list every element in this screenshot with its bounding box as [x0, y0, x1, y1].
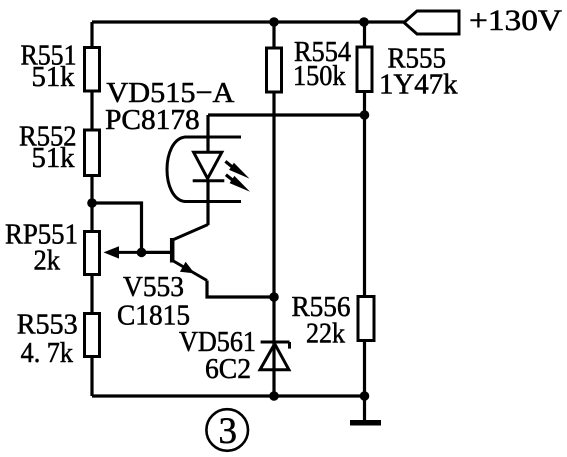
- svg-text:1Y47k: 1Y47k: [379, 69, 458, 101]
- potentiometer RP551 wiper arrow: [116, 251, 142, 254]
- transistor emitter diagonal: [173, 261, 208, 281]
- node dot emitter: [269, 292, 279, 302]
- resistor R556: [358, 297, 374, 341]
- resistor R551: [85, 48, 100, 92]
- svg-text:4. 7k: 4. 7k: [21, 337, 74, 369]
- light arrow 2: [226, 175, 233, 180]
- wire base link: [92, 203, 170, 252]
- node dot wiper: [137, 248, 147, 258]
- LED D (inside optocoupler): [193, 152, 225, 180]
- svg-text:6C2: 6C2: [205, 353, 251, 385]
- svg-text:V553: V553: [123, 271, 184, 303]
- optocoupler U VD515-A housing: [167, 137, 241, 202]
- connector +130V tag: [404, 11, 459, 34]
- node dot top middle: [269, 17, 279, 27]
- svg-text:51k: 51k: [32, 61, 75, 93]
- node dot left column: [87, 198, 97, 208]
- svg-text:51k: 51k: [32, 142, 75, 174]
- wire middle column: [272, 22, 275, 396]
- svg-text:22k: 22k: [306, 318, 345, 350]
- transistor base bar: [170, 238, 175, 263]
- resistor R554: [267, 48, 282, 92]
- svg-text:3: 3: [219, 411, 238, 452]
- svg-text:R553: R553: [17, 309, 78, 341]
- wire ground stub: [363, 396, 366, 420]
- transistor V553: [172, 225, 208, 281]
- wire opto top link: [208, 113, 365, 116]
- wire LED anode: [206, 115, 209, 152]
- transistor emitter arrowhead: [180, 262, 195, 274]
- node dot R555 bottom: [360, 110, 370, 120]
- potentiometer RP551 body: [85, 232, 100, 275]
- svg-text:150k: 150k: [293, 60, 346, 92]
- transistor collector diagonal: [173, 225, 209, 241]
- svg-text:+130V: +130V: [469, 4, 562, 37]
- figure number circle 3: [206, 409, 248, 452]
- light arrow 1: [225, 161, 232, 166]
- svg-text:PC8178: PC8178: [105, 104, 200, 136]
- zener diode VD561: [260, 342, 290, 370]
- node dot top right: [359, 17, 369, 27]
- wire left column: [90, 22, 93, 396]
- resistor R552: [85, 130, 100, 176]
- node dot bottom right: [360, 391, 370, 401]
- resistor R555: [357, 47, 372, 92]
- wire emitter link: [207, 281, 274, 298]
- wire right column: [363, 22, 366, 396]
- resistor R553: [85, 314, 100, 357]
- ground symbol: [350, 420, 381, 426]
- wire top rail: [92, 20, 404, 23]
- svg-text:2k: 2k: [34, 245, 61, 277]
- wire LED cathode to collector: [206, 181, 209, 225]
- node dot bottom middle: [269, 391, 279, 401]
- wire bottom rail: [92, 394, 365, 397]
